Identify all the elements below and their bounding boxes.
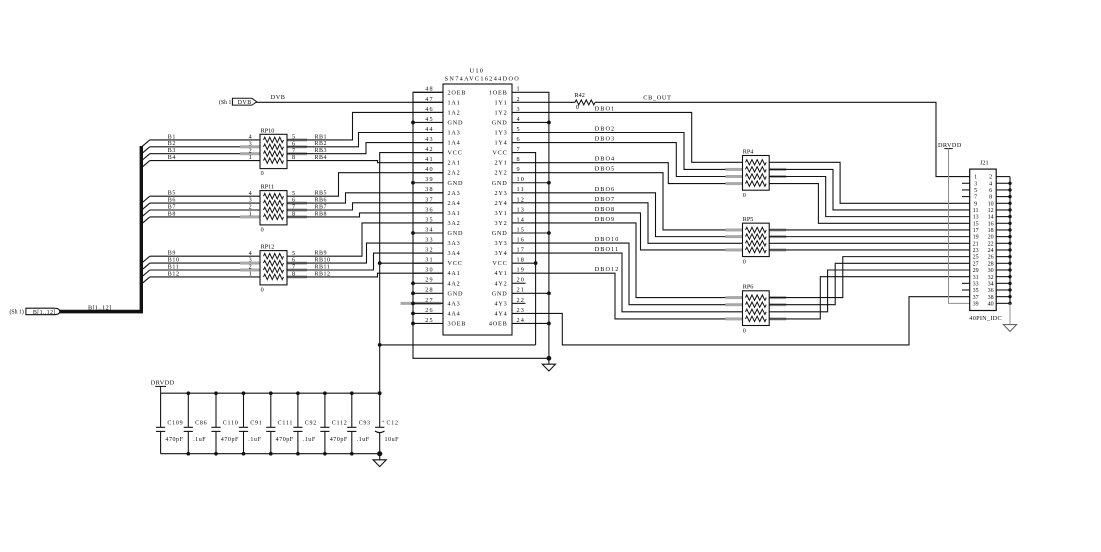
svg-text:DBO11: DBO11 xyxy=(595,246,620,253)
svg-text:3Y1: 3Y1 xyxy=(494,210,507,217)
wire RP4 out 3 to J21 pin 13 xyxy=(769,177,970,217)
wire RB2 to U10 xyxy=(287,133,443,147)
svg-text:11: 11 xyxy=(517,186,525,193)
svg-text:GND: GND xyxy=(448,230,464,237)
RP12 resistor element 3 xyxy=(264,267,284,272)
svg-text:C12: C12 xyxy=(387,421,399,427)
wire GND stub pin 10 xyxy=(512,182,549,184)
svg-text:27: 27 xyxy=(973,261,979,267)
RP5 resistor element 1 xyxy=(746,227,767,232)
wire RB7 to U10 xyxy=(287,203,443,210)
wire RP6 out 3 to J21 pin 29 xyxy=(769,270,970,312)
bus tap + wire B7 xyxy=(142,210,150,217)
resistor pack RP6 gray pin stubs xyxy=(726,296,743,299)
svg-text:C109: C109 xyxy=(167,421,183,427)
IC U10 SN74AVC16244DOO body xyxy=(443,84,512,335)
svg-text:2: 2 xyxy=(989,175,992,181)
svg-text:10: 10 xyxy=(988,201,994,207)
svg-text:13: 13 xyxy=(517,206,526,213)
capacitor C111 470pF xyxy=(270,393,272,427)
svg-text:470pF: 470pF xyxy=(165,437,183,443)
wire RB8 to U10 xyxy=(287,213,443,217)
svg-text:DBO12: DBO12 xyxy=(595,266,620,273)
svg-text:DBO6: DBO6 xyxy=(595,186,616,193)
U10 pin 40 (2A2) stub xyxy=(413,172,443,174)
svg-text:DBO5: DBO5 xyxy=(595,166,616,173)
svg-text:RP5: RP5 xyxy=(743,216,754,223)
svg-text:B3: B3 xyxy=(168,148,176,154)
junction dot rail to VCC vertical xyxy=(378,391,382,395)
svg-text:C112: C112 xyxy=(332,421,348,427)
svg-text:C111: C111 xyxy=(278,421,294,427)
wire RP6 out 4 to J21 pin 31 xyxy=(769,277,970,319)
resistor pack RP12 body xyxy=(260,251,287,285)
RP12 resistor element 2 xyxy=(264,260,284,265)
svg-text:3Y2: 3Y2 xyxy=(494,220,507,227)
svg-text:4A1: 4A1 xyxy=(448,270,461,277)
resistor pack RP5 body xyxy=(743,223,770,256)
svg-text:0: 0 xyxy=(261,286,264,293)
capacitor C110 470pF xyxy=(215,393,217,427)
wire VCC link to right side xyxy=(380,344,536,346)
U10 pin 36 (3A1) stub xyxy=(413,212,443,214)
svg-text:6: 6 xyxy=(989,188,992,194)
svg-text:1A1: 1A1 xyxy=(448,99,461,106)
svg-text:DBO4: DBO4 xyxy=(595,156,616,163)
svg-text:3Y3: 3Y3 xyxy=(494,240,507,247)
bus tap + wire B5 xyxy=(142,196,150,203)
resistor pack RP5 gray pin stubs xyxy=(726,228,743,231)
svg-text:1: 1 xyxy=(517,86,521,93)
svg-text:1: 1 xyxy=(249,154,252,161)
svg-text:3: 3 xyxy=(517,106,521,113)
svg-text:6: 6 xyxy=(517,136,521,143)
svg-text:4A2: 4A2 xyxy=(448,280,461,287)
svg-text:B[1..12]: B[1..12] xyxy=(88,305,111,312)
svg-text:R42: R42 xyxy=(575,92,585,99)
svg-text:GND: GND xyxy=(492,230,508,237)
svg-text:39: 39 xyxy=(425,176,434,183)
svg-text:34: 34 xyxy=(988,281,994,287)
wire DBO5 xyxy=(512,173,743,230)
svg-text:41: 41 xyxy=(425,156,434,163)
svg-text:4Y1: 4Y1 xyxy=(494,270,507,277)
svg-text:0: 0 xyxy=(261,170,264,177)
wire DBO12 xyxy=(512,273,743,319)
wire RP5 out 2 to J21 pin 19 xyxy=(769,236,970,238)
svg-text:24: 24 xyxy=(988,248,994,254)
ground symbol at J21 (gray) xyxy=(1009,303,1011,324)
svg-text:30: 30 xyxy=(425,267,434,274)
svg-text:4OEB: 4OEB xyxy=(489,320,508,327)
svg-text:GND: GND xyxy=(492,119,508,126)
svg-text:1: 1 xyxy=(974,175,977,181)
wire RP5 out 4 to J21 pin 23 xyxy=(769,249,970,251)
resistor R42 xyxy=(512,101,575,103)
RP12 resistor element 4 xyxy=(264,274,284,279)
svg-text:4Y3: 4Y3 xyxy=(494,300,507,307)
svg-text:1: 1 xyxy=(249,211,252,218)
RP10 resistor element 4 xyxy=(264,158,284,163)
U10 pin 43 (1A4) stub xyxy=(413,142,443,144)
svg-text:33: 33 xyxy=(973,281,979,287)
svg-text:VCC: VCC xyxy=(492,150,507,157)
svg-text:RP12: RP12 xyxy=(261,244,275,251)
svg-text:1: 1 xyxy=(249,271,252,278)
RP4 resistor element 3 xyxy=(746,174,767,179)
U10 pin 48 (2OEB) stub xyxy=(413,91,443,93)
wire CB_OUT to J21 pin 1 xyxy=(595,102,970,176)
bus tap + wire B11 xyxy=(142,270,150,277)
svg-text:13: 13 xyxy=(973,215,979,221)
gray pin stubs RP10 xyxy=(240,145,260,148)
svg-text:32: 32 xyxy=(425,247,434,254)
svg-text:35: 35 xyxy=(973,288,979,294)
svg-text:RP4: RP4 xyxy=(743,148,754,155)
RP6 resistor element 2 xyxy=(746,302,767,307)
wire DRVDD to J21 pin 39 (gray) xyxy=(949,149,970,304)
U10 pin 29 (4A2) stub xyxy=(413,282,443,284)
svg-text:VCC: VCC xyxy=(492,260,507,267)
RP10 resistor element 3 xyxy=(264,151,284,156)
svg-text:24: 24 xyxy=(517,317,526,324)
svg-text:GND: GND xyxy=(448,180,464,187)
svg-text:8: 8 xyxy=(517,156,521,163)
svg-text:26: 26 xyxy=(425,307,434,314)
svg-text:5: 5 xyxy=(517,126,521,133)
svg-text:1Y1: 1Y1 xyxy=(494,99,507,106)
RP11 resistor element 1 xyxy=(264,194,284,199)
U10 pin 46 (1A2) stub xyxy=(413,111,443,113)
capacitor C109 470pF xyxy=(160,393,162,427)
svg-text:26: 26 xyxy=(988,255,994,261)
bus tap + wire B12 xyxy=(142,277,150,284)
resistor pack RP6 body xyxy=(743,291,770,326)
RP5 resistor element 3 xyxy=(746,241,767,246)
RP11 resistor element 3 xyxy=(264,207,284,212)
svg-text:B1: B1 xyxy=(168,134,176,140)
U10 pin 27 (4A3) stub xyxy=(413,302,443,304)
svg-text:470pF: 470pF xyxy=(330,437,348,443)
svg-text:.1uF: .1uF xyxy=(303,437,316,443)
wire RB5 to U10 xyxy=(287,173,443,197)
svg-text:2: 2 xyxy=(517,96,521,103)
J21 stub pin 3 xyxy=(962,182,970,184)
wire GND left vertical xyxy=(413,92,549,358)
wire DBO1 xyxy=(512,112,743,162)
svg-text:0: 0 xyxy=(743,328,746,335)
svg-text:DBO10: DBO10 xyxy=(595,236,620,243)
wire RP5 out 3 to J21 pin 21 xyxy=(769,242,970,244)
svg-text:.1uF: .1uF xyxy=(193,437,206,443)
svg-text:25: 25 xyxy=(425,317,434,324)
wire VCC stub pin 18 xyxy=(512,262,536,264)
svg-text:37: 37 xyxy=(425,196,434,203)
gray pin stubs RP11 xyxy=(287,202,307,205)
svg-text:RP6: RP6 xyxy=(743,284,754,291)
wire RP4 out 4 to J21 pin 15 xyxy=(769,184,970,224)
svg-text:31: 31 xyxy=(425,257,434,264)
bus tap + wire B8 xyxy=(142,217,150,224)
svg-text:1A2: 1A2 xyxy=(448,109,461,116)
U10 pin 34 (GND) stub xyxy=(413,232,443,234)
svg-text:31: 31 xyxy=(973,275,979,281)
U10 pin 38 (2A3) stub xyxy=(413,192,443,194)
svg-text:17: 17 xyxy=(973,228,979,234)
svg-text:32: 32 xyxy=(988,275,994,281)
svg-text:29: 29 xyxy=(425,277,434,284)
J21 stub pin 33 xyxy=(962,282,970,284)
svg-text:40: 40 xyxy=(988,301,994,307)
offpage connector B[1..12] (Sh 1) xyxy=(26,308,60,315)
svg-text:3A4: 3A4 xyxy=(448,250,461,257)
svg-text:36: 36 xyxy=(425,206,434,213)
svg-text:GND: GND xyxy=(448,290,464,297)
U10 pin 45 (GND) stub xyxy=(413,121,443,123)
svg-text:(Sh 1): (Sh 1) xyxy=(10,309,24,316)
svg-text:+: + xyxy=(382,419,385,425)
svg-text:3A3: 3A3 xyxy=(448,240,461,247)
svg-text:2OEB: 2OEB xyxy=(448,89,467,96)
wire 4Y4 to J21 pin 37 xyxy=(512,297,970,345)
stub pin 20 unconnected xyxy=(512,282,526,284)
wire DBO6 xyxy=(512,193,743,237)
svg-text:19: 19 xyxy=(517,267,526,274)
bus tap + wire B10 xyxy=(142,263,150,270)
wire DBO2 xyxy=(512,133,743,170)
wire GND right vertical xyxy=(512,92,549,358)
svg-text:DBO3: DBO3 xyxy=(595,136,616,143)
svg-text:28: 28 xyxy=(425,287,434,294)
svg-text:18: 18 xyxy=(988,228,994,234)
wire RB11 to U10 xyxy=(287,253,443,270)
svg-text:3A1: 3A1 xyxy=(448,210,461,217)
resistor pack RP11 body xyxy=(260,191,287,225)
svg-text:14: 14 xyxy=(517,216,526,223)
bypass top rail xyxy=(161,392,380,394)
svg-text:18: 18 xyxy=(517,257,526,264)
svg-text:DBO1: DBO1 xyxy=(595,105,616,112)
wire RB9 to U10 xyxy=(287,223,443,256)
svg-text:21: 21 xyxy=(973,241,979,247)
bus tap + wire B1 xyxy=(142,140,150,147)
wire GND stub pin 4 xyxy=(512,121,549,123)
svg-text:GND: GND xyxy=(448,119,464,126)
wire VCC left vertical to bypass rail xyxy=(380,153,443,394)
RP6 resistor element 1 xyxy=(746,295,767,300)
svg-text:C93: C93 xyxy=(359,421,371,427)
svg-text:46: 46 xyxy=(425,106,434,113)
svg-text:DRVDD: DRVDD xyxy=(151,380,175,387)
wire VCC pin31 xyxy=(380,262,443,264)
RP11 resistor element 2 xyxy=(264,200,284,205)
svg-text:DBO9: DBO9 xyxy=(595,216,616,223)
svg-text:9: 9 xyxy=(974,201,977,207)
svg-text:14: 14 xyxy=(988,215,994,221)
U10 pin 47 (1A1) stub xyxy=(413,101,443,103)
bus tap + wire B6 xyxy=(142,203,150,210)
svg-text:15: 15 xyxy=(517,226,526,233)
svg-text:23: 23 xyxy=(973,248,979,254)
svg-text:B12: B12 xyxy=(168,271,180,277)
U10 pin 44 (1A3) stub xyxy=(413,132,443,134)
wire RB12 to U10 xyxy=(287,273,443,277)
svg-text:C92: C92 xyxy=(305,421,317,427)
svg-text:2Y1: 2Y1 xyxy=(494,160,507,167)
svg-text:0: 0 xyxy=(743,192,746,199)
svg-text:43: 43 xyxy=(425,136,434,143)
J21 right ground vertical xyxy=(1009,177,1011,304)
bus tap + wire B3 xyxy=(142,154,150,161)
svg-text:3A2: 3A2 xyxy=(448,220,461,227)
resistor pack RP10 body xyxy=(260,134,287,168)
svg-text:2Y2: 2Y2 xyxy=(494,170,507,177)
ground symbol under C12 xyxy=(377,451,382,456)
svg-text:3Y4: 3Y4 xyxy=(494,250,507,257)
svg-text:30: 30 xyxy=(988,268,994,274)
wire DVB to pin 47 xyxy=(256,101,443,103)
svg-text:15: 15 xyxy=(973,221,979,227)
svg-text:0: 0 xyxy=(261,226,264,233)
U10 pin 25 (3OEB) stub xyxy=(413,322,443,324)
svg-text:20: 20 xyxy=(517,277,526,284)
svg-text:1Y3: 1Y3 xyxy=(494,130,507,137)
wire RP6 out 1 to J21 pin 25 xyxy=(769,257,970,298)
svg-text:B5: B5 xyxy=(168,191,176,197)
svg-text:9: 9 xyxy=(517,166,521,173)
ground symbol below U10 xyxy=(547,356,552,361)
svg-text:35: 35 xyxy=(425,216,434,223)
svg-text:16: 16 xyxy=(988,221,994,227)
RP12 resistor element 1 xyxy=(264,254,284,259)
svg-text:GND: GND xyxy=(492,180,508,187)
svg-text:2A2: 2A2 xyxy=(448,170,461,177)
svg-text:42: 42 xyxy=(425,146,434,153)
svg-text:29: 29 xyxy=(973,268,979,274)
RP4 resistor element 2 xyxy=(746,167,767,172)
svg-text:.1uF: .1uF xyxy=(357,437,370,443)
svg-text:2A4: 2A4 xyxy=(448,200,461,207)
svg-text:2Y3: 2Y3 xyxy=(494,190,507,197)
svg-text:C91: C91 xyxy=(250,421,262,427)
U10 pin 39 (GND) stub xyxy=(413,182,443,184)
RP10 resistor element 2 xyxy=(264,144,284,149)
wire RP5 out 1 to J21 pin 17 xyxy=(769,229,970,231)
svg-text:20: 20 xyxy=(988,235,994,241)
svg-text:B2: B2 xyxy=(168,141,176,147)
svg-text:17: 17 xyxy=(517,247,526,254)
U10 pin 30 (4A1) stub xyxy=(413,272,443,274)
svg-text:B8: B8 xyxy=(168,211,176,217)
stub pin 22 unconnected xyxy=(512,302,526,304)
svg-text:10uF: 10uF xyxy=(385,437,400,443)
wire DBO8 xyxy=(512,213,743,250)
resistor pack RP4 body xyxy=(743,156,770,191)
capacitor C93 .1uF xyxy=(351,393,353,427)
U10 pin 28 (GND) stub xyxy=(413,292,443,294)
svg-text:3: 3 xyxy=(974,181,977,187)
svg-text:DVB: DVB xyxy=(238,100,252,106)
svg-text:40PIN_IDC: 40PIN_IDC xyxy=(969,315,1002,322)
capacitor C12 10uF xyxy=(379,393,381,427)
U10 pin 35 (3A2) stub xyxy=(413,222,443,224)
svg-text:J21: J21 xyxy=(980,160,989,167)
svg-text:33: 33 xyxy=(425,236,434,243)
svg-text:12: 12 xyxy=(988,208,994,214)
svg-text:CB_OUT: CB_OUT xyxy=(643,95,671,102)
svg-text:3OEB: 3OEB xyxy=(448,320,467,327)
svg-text:10: 10 xyxy=(517,176,526,183)
wire DBO7 xyxy=(512,203,743,243)
svg-text:1A4: 1A4 xyxy=(448,140,461,147)
svg-text:11: 11 xyxy=(973,208,979,214)
svg-text:B9: B9 xyxy=(168,251,176,257)
svg-text:37: 37 xyxy=(973,295,979,301)
svg-text:2Y4: 2Y4 xyxy=(494,200,507,207)
wire RB3 to U10 xyxy=(287,143,443,154)
J21 stub pin 35 xyxy=(962,289,970,291)
svg-text:(Sh 1): (Sh 1) xyxy=(219,99,233,106)
connector J21 body xyxy=(970,169,997,310)
svg-text:B4: B4 xyxy=(168,155,176,161)
svg-text:21: 21 xyxy=(517,287,526,294)
svg-text:VCC: VCC xyxy=(448,150,463,157)
svg-text:25: 25 xyxy=(973,255,979,261)
bus tap + wire B2 xyxy=(142,147,150,154)
svg-text:1Y4: 1Y4 xyxy=(494,140,507,147)
svg-text:39: 39 xyxy=(973,301,979,307)
wire DBO4 xyxy=(512,163,743,184)
wire RB6 to U10 xyxy=(287,193,443,203)
svg-text:4: 4 xyxy=(517,116,521,123)
RP4 resistor element 4 xyxy=(746,181,767,186)
resistor pack RP4 gray pin stubs xyxy=(726,168,743,171)
svg-text:34: 34 xyxy=(425,226,434,233)
svg-text:40: 40 xyxy=(425,166,434,173)
U10 pin 26 (4A4) stub xyxy=(413,312,443,314)
svg-text:36: 36 xyxy=(988,288,994,294)
svg-text:0: 0 xyxy=(576,104,579,111)
U10 pin 42 (VCC) stub xyxy=(413,152,443,154)
svg-text:48: 48 xyxy=(425,86,434,93)
wire DBO3 xyxy=(512,143,743,177)
svg-text:DBO8: DBO8 xyxy=(595,206,616,213)
svg-text:2A1: 2A1 xyxy=(448,160,461,167)
wire RB10 to U10 xyxy=(287,243,443,263)
J21 stub pin 7 xyxy=(962,196,970,198)
capacitor C112 470pF xyxy=(324,393,326,427)
bus tap + wire B9 xyxy=(142,256,150,263)
RP11 resistor element 4 xyxy=(264,214,284,219)
svg-text:47: 47 xyxy=(425,96,434,103)
offpage connector DVB (Sh 1) xyxy=(232,98,256,105)
svg-text:B11: B11 xyxy=(168,264,180,270)
U10 pin 33 (3A3) stub xyxy=(413,242,443,244)
svg-text:U10: U10 xyxy=(470,68,485,75)
U10 pin 31 (VCC) stub xyxy=(413,262,443,264)
wire RP4 out 2 to J21 pin 11 xyxy=(769,169,970,210)
svg-text:12: 12 xyxy=(517,196,526,203)
capacitor C86 .1uF xyxy=(187,393,189,427)
svg-text:4Y2: 4Y2 xyxy=(494,280,507,287)
svg-text:4Y4: 4Y4 xyxy=(494,310,507,317)
svg-text:0: 0 xyxy=(743,259,746,266)
svg-text:C110: C110 xyxy=(223,421,239,427)
svg-text:.1uF: .1uF xyxy=(248,437,261,443)
bus B[1..12] thick wire xyxy=(60,310,143,314)
svg-text:7: 7 xyxy=(974,195,977,201)
svg-text:22: 22 xyxy=(988,241,994,247)
